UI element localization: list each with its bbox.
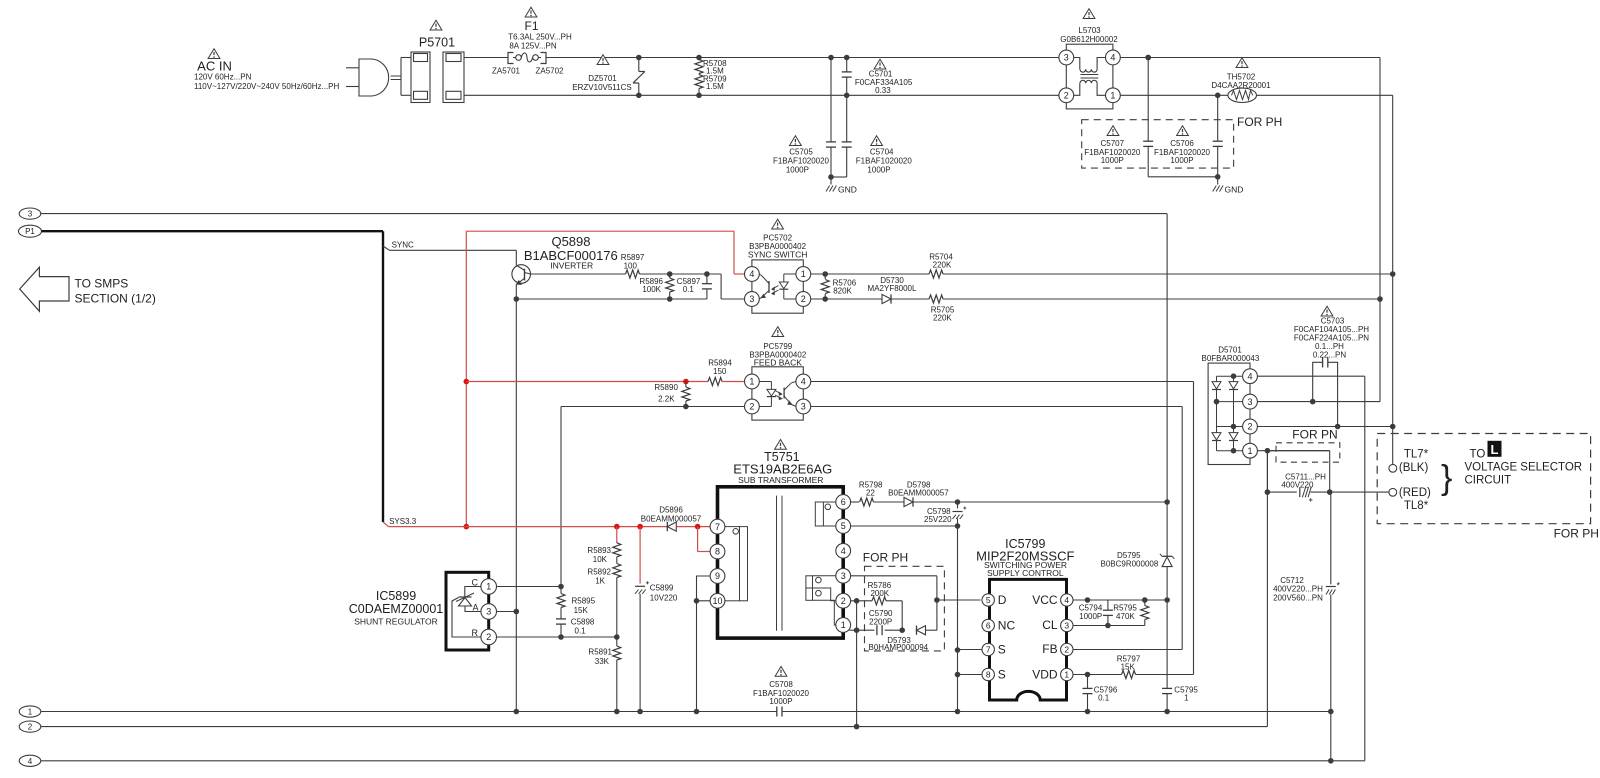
svg-text:0.22...PN: 0.22...PN <box>1313 351 1347 360</box>
svg-text:3: 3 <box>486 607 491 617</box>
bridge rectifier D5701 <box>1201 346 1259 465</box>
svg-text:15K: 15K <box>1121 662 1136 671</box>
box FOR PN <box>1276 428 1340 463</box>
svg-text:CL: CL <box>1042 618 1058 632</box>
svg-text:100K: 100K <box>642 285 661 294</box>
svg-text:1000P: 1000P <box>1079 612 1102 621</box>
node red pin8 tap <box>695 524 701 530</box>
wire P5701 to fuse <box>464 57 508 59</box>
svg-text:R5895: R5895 <box>572 597 596 606</box>
svg-text:1: 1 <box>1247 446 1252 456</box>
svg-text:9: 9 <box>715 571 720 581</box>
wire pin1 to jumper <box>1267 451 1332 495</box>
wire plug fork <box>401 58 411 96</box>
svg-text:VDD: VDD <box>1032 668 1058 682</box>
wire D5896 to pin7 <box>676 526 710 528</box>
svg-text:VCC: VCC <box>1032 593 1058 607</box>
svg-text:820K: 820K <box>833 286 852 295</box>
svg-text:VOLTAGE SELECTOR: VOLTAGE SELECTOR <box>1465 462 1583 474</box>
svg-text:1: 1 <box>841 620 846 630</box>
svg-text:120V 60Hz...PN: 120V 60Hz...PN <box>194 73 252 82</box>
resistor R5705 <box>929 295 955 322</box>
svg-text:2200P: 2200P <box>869 618 892 627</box>
box FOR PH (snubber) <box>863 551 945 651</box>
svg-text:L5703: L5703 <box>1078 26 1101 35</box>
svg-text:1: 1 <box>1184 694 1189 703</box>
wire L5703 pin4 to right <box>1120 55 1380 61</box>
svg-text:FOR PH: FOR PH <box>1237 115 1282 129</box>
label ZA5701 <box>492 67 521 76</box>
svg-text:5: 5 <box>986 595 991 605</box>
svg-text:0.1: 0.1 <box>575 627 587 636</box>
wire collector row <box>530 273 625 275</box>
svg-text:3: 3 <box>1247 397 1252 407</box>
svg-text:S: S <box>998 668 1006 682</box>
node red junction F1 <box>464 379 470 385</box>
svg-text:3: 3 <box>841 571 846 581</box>
node Q5898 emitter <box>514 296 520 302</box>
svg-text:6: 6 <box>986 621 991 631</box>
AC plug <box>346 59 401 96</box>
wire pin1 stub <box>849 629 856 631</box>
svg-text:6: 6 <box>841 497 846 507</box>
svg-text:C5708: C5708 <box>769 680 793 689</box>
svg-text:FOR PN: FOR PN <box>1292 428 1337 442</box>
svg-text:C5899: C5899 <box>650 584 674 593</box>
svg-text:33K: 33K <box>595 657 610 666</box>
resistor R5795 <box>1113 600 1149 626</box>
wire pin1 drop <box>1265 451 1271 495</box>
node red C5899 tap <box>637 524 643 530</box>
node red R5893 tap <box>614 524 620 530</box>
wire SYS3.3 red row <box>389 526 668 528</box>
connector terminal P1 <box>19 225 42 237</box>
wire BLK drop <box>1392 427 1394 465</box>
wire R5897 to corner <box>640 271 722 277</box>
wire red vertical main <box>465 231 467 526</box>
svg-text:2: 2 <box>1064 645 1069 655</box>
svg-text:SUB TRANSFORMER: SUB TRANSFORMER <box>738 475 823 485</box>
svg-text:200V560...PN: 200V560...PN <box>1273 593 1323 602</box>
wire pin9 loop <box>697 576 711 601</box>
box FOR PH (C5706/C5707) <box>1082 115 1283 168</box>
wire pin2 drop to IC5899 <box>560 407 562 587</box>
svg-text:2: 2 <box>486 632 491 642</box>
svg-text:SYNC SWITCH: SYNC SWITCH <box>748 249 808 259</box>
wire D5798 to zener column <box>913 499 1170 505</box>
svg-text:400V220: 400V220 <box>1281 480 1314 489</box>
wire line1 fuse to L5703 <box>546 57 1059 59</box>
svg-text:R5891: R5891 <box>588 648 612 657</box>
wire R5786 to corner <box>886 601 905 633</box>
svg-text:1000P: 1000P <box>786 165 809 174</box>
capacitor C5706 <box>1154 95 1223 177</box>
svg-text:1000P: 1000P <box>1170 156 1193 165</box>
svg-text:}: } <box>1441 459 1452 497</box>
connector terminal 4 <box>19 755 41 766</box>
svg-text:GND: GND <box>838 185 857 195</box>
wire VCC row <box>1073 597 1170 603</box>
node pin10 junction <box>694 598 700 604</box>
svg-text:SHUNT REGULATOR: SHUNT REGULATOR <box>354 616 438 626</box>
wire bus1 left <box>41 709 777 715</box>
diode D5793 <box>869 626 929 652</box>
svg-text:R5892: R5892 <box>587 568 611 577</box>
wire bus2-column to C5712 is separate <box>0 0 1 1</box>
svg-text:C0DAEMZ00001: C0DAEMZ00001 <box>349 602 444 616</box>
wire right vertical B <box>1392 95 1394 426</box>
wire C5711 to RED terminal <box>1330 491 1389 493</box>
resistor R5786 <box>868 581 892 605</box>
node R row x R589x chain <box>614 634 620 640</box>
wire pin2 stub <box>851 598 872 604</box>
connector terminal 1 <box>19 706 41 717</box>
svg-text:TL7*: TL7* <box>1404 449 1429 461</box>
wire P1 bold vertical <box>382 231 384 522</box>
diode D5730 <box>868 276 917 304</box>
wire D row to IC pin5 <box>937 599 981 601</box>
svg-text:SYNC: SYNC <box>392 241 414 250</box>
wire IC5899 C row <box>497 584 564 590</box>
wire line2 start <box>464 94 1059 96</box>
svg-text:4: 4 <box>28 757 33 766</box>
wire Q5898 emitter drop <box>515 299 517 712</box>
node red R5890 top <box>683 379 689 385</box>
svg-text:5: 5 <box>841 521 846 531</box>
connector terminal 2 <box>19 721 41 732</box>
svg-text:A: A <box>472 603 478 613</box>
svg-text:T6.3AL 250V...PH: T6.3AL 250V...PH <box>508 33 572 42</box>
label TO SMPS SECTION (1/2) <box>75 277 156 306</box>
svg-text:7: 7 <box>986 645 991 655</box>
shunt regulator IC5899 <box>349 572 497 650</box>
wire red C5899 stub <box>639 527 641 584</box>
label ZA5702 <box>535 67 564 76</box>
svg-text:F1: F1 <box>524 19 538 33</box>
svg-text:GND: GND <box>1225 185 1244 195</box>
resistor R5894 <box>708 359 732 386</box>
svg-text:0.33: 0.33 <box>875 86 891 95</box>
svg-text:400V220...PH: 400V220...PH <box>1273 585 1323 594</box>
svg-text:1K: 1K <box>595 577 605 586</box>
svg-text:B0BC9R000008: B0BC9R000008 <box>1100 559 1158 568</box>
svg-text:3: 3 <box>749 294 754 304</box>
wire bus2 <box>41 726 1268 728</box>
svg-text:4: 4 <box>1064 595 1069 605</box>
svg-text:ZA5701: ZA5701 <box>492 67 521 76</box>
wire D5701 pin3 row <box>1257 399 1380 405</box>
terminal TL8 RED <box>1389 487 1431 512</box>
svg-text:MA2YF8000L: MA2YF8000L <box>868 284 917 293</box>
wire pin9/10 drop to bus1 <box>696 601 698 712</box>
svg-text:10K: 10K <box>593 555 608 564</box>
wire L5703 pin1 to TH <box>1120 93 1228 99</box>
capacitor C5899 <box>635 581 678 711</box>
svg-text:FB: FB <box>1042 642 1057 656</box>
resistor R5893 <box>587 543 620 565</box>
resistor R5891 <box>588 637 620 712</box>
svg-text:8: 8 <box>986 670 991 680</box>
wire step to PC5702 pin3 <box>721 274 744 299</box>
svg-text:CIRCUIT: CIRCUIT <box>1465 475 1512 487</box>
wire PC5799 pin3 to FB net <box>811 407 1182 650</box>
capacitor C5703 <box>1294 306 1369 426</box>
svg-text:1: 1 <box>28 708 33 717</box>
svg-text:10: 10 <box>712 596 722 606</box>
capacitor C5795 <box>1162 600 1198 712</box>
svg-text:FOR PH: FOR PH <box>1554 527 1599 541</box>
svg-text:*: * <box>1337 581 1341 591</box>
svg-text:SECTION (1/2): SECTION (1/2) <box>75 292 156 306</box>
svg-text:2: 2 <box>801 294 806 304</box>
svg-text:1000P: 1000P <box>1101 156 1124 165</box>
label SYNC net <box>383 241 414 251</box>
wire D5730 to R5705 <box>891 298 929 300</box>
svg-text:4: 4 <box>1110 53 1115 63</box>
svg-text:4: 4 <box>749 269 754 279</box>
svg-text:(BLK): (BLK) <box>1399 462 1429 474</box>
svg-text:B0FBAR000043: B0FBAR000043 <box>1201 354 1259 363</box>
node D-row tap <box>934 597 940 603</box>
brace <box>1441 459 1452 497</box>
capacitor C5897 <box>677 274 712 299</box>
resistor R5896 <box>639 274 673 302</box>
capacitor C5790 <box>857 609 903 635</box>
wire D5793 to pin3 column <box>926 629 937 631</box>
svg-text:C5706: C5706 <box>1170 139 1194 148</box>
svg-text:4: 4 <box>801 377 806 387</box>
arrow TO SMPS SECTION <box>20 267 69 311</box>
wire FB row <box>1073 649 1182 651</box>
svg-text:2: 2 <box>28 723 33 732</box>
wire D5701 pin4 row <box>1257 375 1364 377</box>
wire bus3 rise <box>1364 376 1366 761</box>
svg-text:F1BAF1020020: F1BAF1020020 <box>856 156 913 165</box>
svg-text:B0EAMM000057: B0EAMM000057 <box>888 488 949 497</box>
svg-text:200K: 200K <box>870 589 889 598</box>
wire R5894 to PC5799 pin1 <box>722 381 745 383</box>
wire pin5 row <box>851 523 960 529</box>
svg-text:220K: 220K <box>933 313 952 322</box>
sub transformer T5751 <box>710 440 851 639</box>
capacitor C5701 <box>842 55 913 98</box>
svg-text:1.5M: 1.5M <box>706 82 724 91</box>
varistor DZ5701 <box>572 55 645 98</box>
svg-text:ERZV10V511CS: ERZV10V511CS <box>572 83 631 92</box>
wire pin3 row <box>851 576 937 630</box>
connector terminal 3 <box>19 208 41 219</box>
svg-text:P5701: P5701 <box>419 36 455 50</box>
wire TH to right <box>1257 94 1393 96</box>
svg-text:22: 22 <box>866 488 875 497</box>
svg-text:INVERTER: INVERTER <box>550 260 593 270</box>
capacitor C5794 <box>1079 600 1113 626</box>
resistor R5797 <box>1117 655 1141 679</box>
svg-text:1: 1 <box>1110 91 1115 101</box>
svg-text:150: 150 <box>713 367 727 376</box>
box voltage selector dashed <box>1377 434 1599 541</box>
wire PC5702 pin2 row <box>811 298 882 300</box>
svg-text:3: 3 <box>1064 53 1069 63</box>
capacitor C5708 <box>753 667 810 717</box>
capacitor C5707 <box>1084 55 1153 177</box>
svg-text:SUPPLY CONTROL: SUPPLY CONTROL <box>987 568 1064 578</box>
resistor R5708 R5709 <box>695 55 727 98</box>
svg-text:C: C <box>472 578 479 588</box>
svg-text:IC5899: IC5899 <box>376 589 416 603</box>
wire D5701 pin1 row <box>1257 448 1329 454</box>
svg-text:7: 7 <box>715 522 720 532</box>
svg-text:8: 8 <box>715 547 720 557</box>
svg-text:C5704: C5704 <box>870 148 894 157</box>
svg-text:TL8*: TL8* <box>1404 500 1429 512</box>
terminal TL7 BLK <box>1389 449 1429 475</box>
wire red top horizontal <box>466 230 734 232</box>
svg-text:0.1: 0.1 <box>683 285 695 294</box>
wire PC5799 pin2 left <box>561 406 745 408</box>
ground GND right <box>1213 177 1244 195</box>
svg-text:8A 125V...PN: 8A 125V...PN <box>509 42 557 51</box>
capacitor C5798 <box>924 502 966 526</box>
resistor R5706 <box>821 274 857 302</box>
svg-text:220K: 220K <box>933 260 952 269</box>
svg-text:2: 2 <box>749 402 754 412</box>
wire R5797 to corner <box>1136 674 1194 676</box>
svg-text:G0B612H00002: G0B612H00002 <box>1060 35 1118 44</box>
svg-text:DZ5701: DZ5701 <box>588 74 617 83</box>
svg-text:R5893: R5893 <box>587 546 611 555</box>
svg-text:1: 1 <box>801 269 806 279</box>
wire cap bottoms <box>828 174 847 180</box>
svg-text:1000P: 1000P <box>867 165 890 174</box>
svg-text:FEED BACK: FEED BACK <box>754 357 803 367</box>
wire bus1 right <box>782 709 1334 715</box>
svg-text:Q5898: Q5898 <box>551 234 590 249</box>
svg-text:SYS3.3: SYS3.3 <box>389 517 417 526</box>
capacitor C5796 <box>1083 675 1118 712</box>
node red junction SYS <box>464 524 470 530</box>
optocoupler PC5702 <box>745 219 811 313</box>
wire pin2-pin1 vertical <box>854 601 860 730</box>
label TO L VOLTAGE SELECTOR CIRCUIT <box>1465 441 1583 487</box>
svg-text:F1BAF1020020: F1BAF1020020 <box>773 156 830 165</box>
svg-text:15K: 15K <box>574 606 589 615</box>
wire S8 row <box>958 674 983 676</box>
zener D5795 <box>1100 214 1174 600</box>
svg-text:C5898: C5898 <box>571 618 595 627</box>
svg-text:1: 1 <box>1064 670 1069 680</box>
wire PC5702 pin1 row <box>811 271 929 277</box>
svg-text:2.2K: 2.2K <box>658 395 675 404</box>
svg-text:2: 2 <box>1064 91 1069 101</box>
svg-text:R: R <box>472 628 479 638</box>
resistor R5892 <box>587 564 620 638</box>
capacitor C5705 <box>773 55 836 177</box>
label AC IN <box>194 49 340 91</box>
diode D5896 <box>641 506 702 532</box>
svg-text:1: 1 <box>749 377 754 387</box>
svg-text:ZA5702: ZA5702 <box>535 67 564 76</box>
resistor R5704 <box>929 253 953 279</box>
wire pin6 row <box>851 501 859 503</box>
svg-text:10V220: 10V220 <box>650 593 678 602</box>
connector P5701 <box>411 20 464 102</box>
resistor R5890 <box>654 382 690 410</box>
svg-text:4: 4 <box>1247 371 1252 381</box>
svg-text:D5896: D5896 <box>659 506 683 515</box>
svg-text:25V220: 25V220 <box>924 515 952 524</box>
wire Q5898 emitter rail <box>516 298 707 300</box>
svg-text:B0EAMM000057: B0EAMM000057 <box>641 514 702 523</box>
wire red to pin8 <box>698 527 711 552</box>
wire IC5899 R row <box>497 634 617 640</box>
svg-text:(RED): (RED) <box>1399 487 1431 499</box>
wire red R5893 stub <box>616 527 618 543</box>
svg-text:1000P: 1000P <box>769 697 792 706</box>
svg-text:110V~127V/220V~240V 50Hz/60Hz: 110V~127V/220V~240V 50Hz/60Hz...PH <box>194 82 340 91</box>
svg-text:AC IN: AC IN <box>197 59 232 74</box>
resistor R5895 <box>557 587 596 619</box>
switching control IC5799 <box>976 537 1074 700</box>
svg-text:4: 4 <box>841 546 846 556</box>
resistor R5798 <box>859 481 883 507</box>
transistor Q5898 <box>512 234 618 299</box>
wire S7 row <box>958 649 983 651</box>
line-filter L5703 <box>1059 9 1120 109</box>
thermistor TH5702 <box>1211 58 1271 103</box>
svg-text:3: 3 <box>1064 621 1069 631</box>
wire C5707/C5706 bottoms <box>1148 174 1220 180</box>
wire CL row <box>1073 623 1145 629</box>
svg-text:C5705: C5705 <box>789 148 813 157</box>
capacitor C5898 <box>556 618 595 638</box>
capacitor C5711 <box>1267 472 1329 501</box>
svg-text:D: D <box>998 593 1007 607</box>
wire red drop to PC5702 pin4 <box>734 231 745 274</box>
wire PC5799 pin4 to VDD net <box>811 382 1194 675</box>
wire bus3 <box>41 758 1365 764</box>
svg-text:TO SMPS: TO SMPS <box>75 277 129 291</box>
capacitor C5704 <box>842 95 913 177</box>
wire S column <box>955 526 961 714</box>
svg-text:100: 100 <box>624 262 638 271</box>
wire SYNC to Q5898 base <box>390 250 517 265</box>
svg-text:FOR PH: FOR PH <box>863 551 908 565</box>
wire red to R5894 <box>466 381 708 383</box>
svg-text:C5707: C5707 <box>1101 139 1125 148</box>
resistor R5897 <box>621 253 645 278</box>
svg-text:NC: NC <box>998 619 1016 633</box>
wire R5704 to vertical B <box>943 271 1395 277</box>
svg-text:TO: TO <box>1470 449 1486 461</box>
svg-text:0.1: 0.1 <box>1098 694 1110 703</box>
wire R5798 to D5798 <box>874 501 904 503</box>
label SYS3.3 <box>383 517 417 527</box>
capacitor C5712 <box>1273 492 1340 761</box>
optocoupler PC5799 <box>745 327 811 420</box>
svg-text:P1: P1 <box>25 227 35 236</box>
fuse F1 <box>508 7 572 63</box>
svg-text:R5890: R5890 <box>654 383 678 392</box>
svg-text:2: 2 <box>1247 422 1252 432</box>
wire P1 bold horizontal <box>42 230 384 232</box>
ground GND left <box>826 177 857 195</box>
wire right vertical A <box>1379 58 1381 402</box>
svg-text:470K: 470K <box>1116 612 1135 621</box>
wire VDD row <box>1073 672 1122 678</box>
svg-text:1: 1 <box>486 582 491 592</box>
svg-text:L: L <box>1491 442 1499 457</box>
